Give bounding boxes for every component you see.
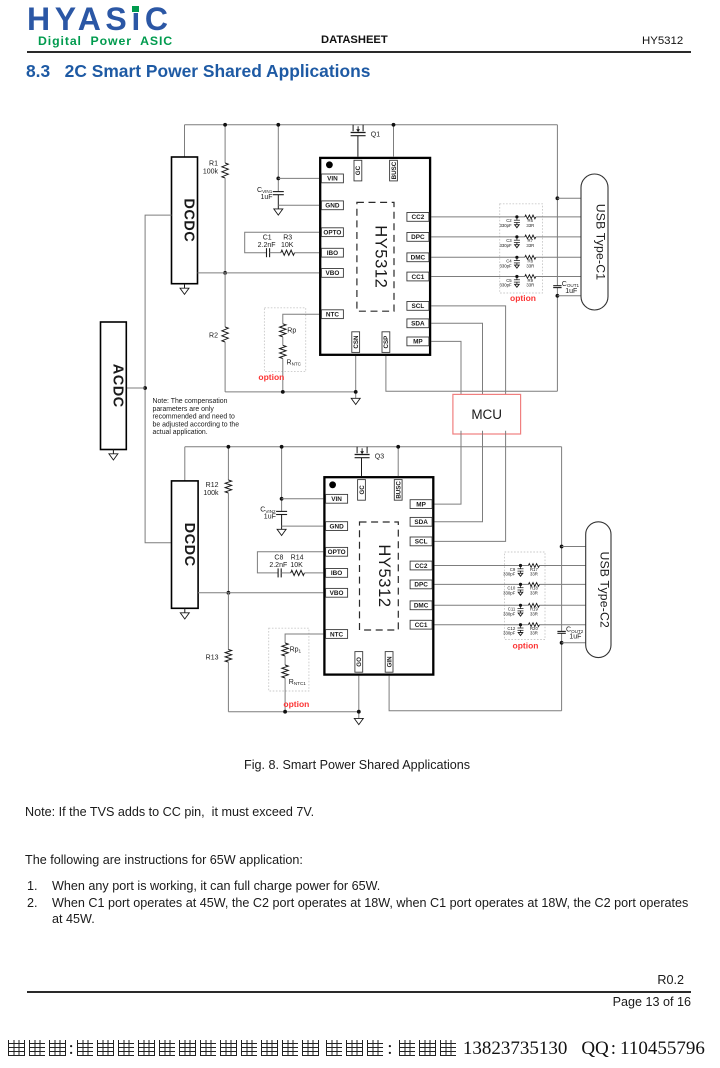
U1 pin IBO <box>321 248 343 257</box>
capacitor C1 2.2nF <box>266 248 268 257</box>
capacitor C5 330pF <box>515 275 518 278</box>
wire: NTC2 row <box>285 634 323 643</box>
svg-text:330pF: 330pF <box>503 590 516 595</box>
svg-text:2.2nF: 2.2nF <box>269 562 287 569</box>
svg-text:330pF: 330pF <box>503 572 516 577</box>
svg-text:33R: 33R <box>526 243 534 248</box>
svg-text:ACDC: ACDC <box>109 364 125 408</box>
U1 pin SDA <box>407 319 429 328</box>
node: rail2/BUSC2 <box>396 445 400 449</box>
wire: rail to DCDC1 top <box>184 125 186 157</box>
node: VIN row/CVIN1 <box>276 177 280 181</box>
wire: ACDC to DCDC1/DCDC2 input <box>145 215 171 543</box>
node: GO ground junction <box>357 710 361 714</box>
node: VBO/R1/R2 junction <box>223 271 227 275</box>
logo subtitle <box>38 34 173 48</box>
U2 pin VIN <box>326 494 348 503</box>
svg-text:CSN: CSN <box>353 335 360 349</box>
resistor R3 10K <box>281 250 295 255</box>
wire: VBUS1 bus down right side <box>556 125 558 286</box>
U2 pin BUSC <box>394 480 402 501</box>
svg-text:OPTO: OPTO <box>323 230 341 237</box>
capacitor CVIN1 1uF <box>277 125 279 192</box>
svg-text:GC: GC <box>359 485 366 495</box>
node: rail/BUSC1 <box>392 123 396 127</box>
svg-text:MP: MP <box>416 501 426 508</box>
svg-text:33R: 33R <box>530 631 538 636</box>
wire: OPTO-IBO compensation loop <box>245 232 319 253</box>
DCDC converter block (top) <box>172 157 198 284</box>
instructions heading <box>25 853 303 867</box>
svg-text:R14: R14 <box>291 555 304 562</box>
node: RNTC1/ground rail <box>283 710 287 714</box>
wire: row C3/R7 (pin to USB-C1) <box>431 236 525 238</box>
svg-text:MCU: MCU <box>471 407 502 422</box>
section title <box>26 61 370 82</box>
wire: GND pin row <box>278 204 319 206</box>
wire: VBUS1 row to USB-C1 <box>557 197 581 199</box>
ground at CSN <box>351 398 360 404</box>
U1 pin OPTO <box>321 228 343 237</box>
wire: row C11/R19 (pin to USB-C2) <box>434 604 528 606</box>
resistor R8 33R <box>525 255 536 259</box>
U1 pin CSN <box>352 332 360 353</box>
U2 pin CC1 <box>410 620 432 629</box>
svg-text:actual application.: actual application. <box>153 429 208 436</box>
U2 pin MP <box>410 500 432 509</box>
svg-text:Q1: Q1 <box>371 131 380 138</box>
ACDC converter block <box>101 322 127 450</box>
option box: Rp/RNTC (top) <box>264 308 305 372</box>
svg-text:CC1: CC1 <box>415 622 428 629</box>
svg-text:1uF: 1uF <box>569 634 581 641</box>
capacitor COUT2 1uF <box>557 630 565 632</box>
svg-text:NTC: NTC <box>330 631 344 638</box>
svg-text:2.2nF: 2.2nF <box>258 242 276 249</box>
wire: VBUS2 bus down right side <box>561 447 563 632</box>
svg-text:SDA: SDA <box>414 519 428 526</box>
wire: VIN2 pin row <box>282 498 324 500</box>
wire: VIN pin row <box>278 177 319 179</box>
svg-text:be adjusted according to the: be adjusted according to the <box>153 421 240 428</box>
svg-text:100k: 100k <box>203 169 219 176</box>
svg-text:33R: 33R <box>526 223 534 228</box>
circuit schematic <box>0 100 720 760</box>
wire: row C5/R9 (pin to USB-C1) <box>431 276 525 278</box>
wire: low row to USB-C2 <box>562 642 586 644</box>
resistor R18 33R <box>528 583 539 587</box>
U1 pin CC1 <box>407 272 429 281</box>
wire: VBUS2 top rail <box>185 446 562 448</box>
svg-text:SDA: SDA <box>411 321 425 328</box>
svg-text:33R: 33R <box>530 572 538 577</box>
svg-text:330pF: 330pF <box>500 223 513 228</box>
node: rail/CVIN1 <box>276 123 280 127</box>
U2 pin GC <box>358 480 366 501</box>
USB Type-C1 connector <box>581 174 608 310</box>
resistor RNTC1 <box>282 665 288 678</box>
capacitor C9 330pF <box>519 564 522 567</box>
U2 pin GIN <box>385 652 393 673</box>
resistor Rp1 <box>282 643 288 656</box>
node: COUT2 low side <box>560 641 564 645</box>
svg-text:DPC: DPC <box>414 582 428 589</box>
U2 pin DPC <box>410 580 432 589</box>
wire: VBUS1 top rail <box>185 124 558 126</box>
logo HYASIC <box>27 1 173 38</box>
U2 pin IBO <box>326 569 348 578</box>
svg-text:VBO: VBO <box>325 270 339 277</box>
ground below DCDC2 <box>184 608 186 613</box>
node: rail/R1 <box>223 123 227 127</box>
capacitor C4 330pF <box>515 256 518 259</box>
node: COUT1 low side <box>556 294 560 298</box>
op-amp/controller IC U1 HY5312 <box>320 158 430 355</box>
svg-text:VIN: VIN <box>331 496 342 503</box>
wire: CSP sense line to VBUS1 <box>386 356 558 391</box>
wire: row C2/R6 (pin to USB-C1) <box>431 216 525 218</box>
svg-text:option: option <box>283 699 309 709</box>
svg-text:33R: 33R <box>526 263 534 268</box>
svg-text:NTC: NTC <box>326 312 340 319</box>
svg-text:recommended and need to: recommended and need to <box>153 414 236 421</box>
capacitor C3 330pF <box>515 235 518 238</box>
header center: DATASHEET <box>321 34 388 46</box>
svg-text:R3: R3 <box>283 235 292 242</box>
resistor R13 <box>227 593 229 650</box>
note TVS <box>25 805 314 819</box>
svg-text:IBO: IBO <box>331 570 342 577</box>
U1 pin GC <box>354 160 362 181</box>
node: VIN2 row/CVIN2 <box>280 497 284 501</box>
op-amp/controller IC U2 HY5312 <box>324 477 433 674</box>
svg-text:IBO: IBO <box>327 250 338 257</box>
list item 2 <box>27 896 38 910</box>
svg-text:VBO: VBO <box>330 590 344 597</box>
U1 pin CSP <box>382 332 390 353</box>
figure caption <box>244 758 470 772</box>
option box: CC filter network (bottom) <box>505 552 546 640</box>
svg-text:CSP: CSP <box>383 336 390 349</box>
svg-text:GIN: GIN <box>386 656 393 668</box>
svg-text:R12: R12 <box>206 482 219 489</box>
node: VBO2/R12/R13 junction <box>227 591 231 595</box>
svg-text:DCDC: DCDC <box>181 523 197 567</box>
resistor RNTC <box>280 345 286 358</box>
svg-text:HY5312: HY5312 <box>375 544 393 607</box>
header rule <box>27 51 691 53</box>
node: CSN ground junction <box>354 390 358 394</box>
svg-text:DCDC: DCDC <box>181 198 197 242</box>
U2 pin CC2 <box>410 561 432 570</box>
node: rail2/R12 <box>227 445 231 449</box>
wire: VBO row (DCDC1 feedback) <box>198 272 320 274</box>
option box: Rp1/RNTC1 (bottom) <box>269 628 309 691</box>
svg-text:33R: 33R <box>530 611 538 616</box>
transistor Q1 (pass MOSFET) <box>353 125 363 132</box>
U2 pin VBO <box>326 588 348 597</box>
svg-text:GO: GO <box>356 657 363 667</box>
wire: VBUS2 row to USB-C2 <box>562 546 586 548</box>
U1 pin DPC <box>407 233 429 242</box>
ground below ACDC <box>112 450 114 454</box>
svg-text:10K: 10K <box>281 242 294 249</box>
svg-text:option: option <box>513 641 539 651</box>
node: VBUS1 to connector <box>556 196 560 200</box>
wire: GIN sense line to VBUS2 <box>389 676 561 711</box>
wire: low row to USB-C1 <box>557 295 581 297</box>
svg-text:RNTC: RNTC <box>287 359 302 366</box>
wire: OPTO2-IBO2 compensation loop <box>257 552 323 573</box>
wire: ground rail (top circuit) <box>225 391 356 393</box>
svg-text:R1: R1 <box>209 161 218 168</box>
U1 pin SCL <box>407 302 429 311</box>
U1 pin MP <box>407 337 429 346</box>
svg-text:CC2: CC2 <box>415 563 428 570</box>
svg-text:OPTO: OPTO <box>328 549 346 556</box>
svg-text:DMC: DMC <box>411 255 426 262</box>
U1 pin GND <box>321 201 343 210</box>
U1 pin VIN <box>321 174 343 183</box>
svg-text:VIN: VIN <box>327 176 338 183</box>
node: ACDC output junction <box>143 386 147 390</box>
header right: HY5312 <box>642 35 683 47</box>
footer distributor line (CJK rendered as stroke blocks) <box>6 1038 705 1060</box>
svg-text:GND: GND <box>325 203 340 210</box>
wire: row C12/R20 (pin to USB-C2) <box>434 624 528 626</box>
svg-text:SCL: SCL <box>415 539 428 546</box>
wire: SDA1 to MCU <box>431 323 482 397</box>
U2 pin GO <box>355 652 363 673</box>
U1 pin CC2 <box>407 213 429 222</box>
svg-text:GC: GC <box>355 165 362 175</box>
U2 pin DMC <box>410 601 432 610</box>
svg-text:33R: 33R <box>530 590 538 595</box>
list item 1 <box>27 879 38 893</box>
svg-text:330pF: 330pF <box>500 243 513 248</box>
capacitor C2 330pF <box>515 215 518 218</box>
svg-text:10K: 10K <box>290 562 303 569</box>
U2 pin OPTO <box>326 547 348 556</box>
wire: row C10/R18 (pin to USB-C2) <box>434 583 528 585</box>
resistor R12 100k <box>227 447 229 480</box>
svg-text:Rp: Rp <box>287 328 296 335</box>
svg-text:330pF: 330pF <box>500 283 513 288</box>
resistor R20 33R <box>528 623 539 627</box>
transistor Q3 (pass MOSFET) <box>357 447 367 454</box>
resistor R14 10K <box>291 570 305 575</box>
wire: NTC row <box>283 314 319 324</box>
wire: CSN to ground <box>355 356 357 398</box>
U2 pin-1 marker <box>329 481 336 488</box>
svg-text:Q3: Q3 <box>375 453 384 460</box>
U1 pin-1 marker <box>326 161 333 168</box>
resistor R2 (lower divider) <box>224 273 226 327</box>
USB Type-C2 connector <box>586 522 611 658</box>
capacitor CVIN2 1uF <box>281 447 283 512</box>
svg-text:BUSC: BUSC <box>391 161 398 179</box>
resistor R19 33R <box>528 603 539 607</box>
wire: ACDC output <box>126 387 145 389</box>
node: RNTC/ground rail <box>281 390 285 394</box>
capacitor C11 330pF <box>519 604 522 607</box>
svg-text:C8: C8 <box>274 555 283 562</box>
wire: rail to DCDC2 top <box>184 447 186 481</box>
svg-text:parameters are only: parameters are only <box>153 406 215 413</box>
U2 pin GND <box>326 522 348 531</box>
wire: MP1 to MCU <box>431 341 461 397</box>
U1 pin NTC <box>321 310 343 319</box>
capacitor COUT1 1uF <box>553 285 561 287</box>
resistor Rp <box>280 324 286 337</box>
U2 pin NTC <box>326 630 348 639</box>
svg-text:100k: 100k <box>203 490 219 497</box>
svg-text:R13: R13 <box>206 655 219 662</box>
capacitor C10 330pF <box>519 583 522 586</box>
svg-text:BUSC: BUSC <box>396 481 403 499</box>
wire: ground rail (bottom circuit) <box>228 711 358 713</box>
MCU block <box>453 394 521 434</box>
svg-text:DPC: DPC <box>411 234 425 241</box>
svg-text:GND: GND <box>329 523 344 530</box>
footer page number <box>613 995 691 1009</box>
svg-text:CC2: CC2 <box>412 214 425 221</box>
resistor R6 33R <box>525 215 536 219</box>
wire: VBO2 row (DCDC2 feedback) <box>198 592 323 594</box>
wire: BUSC1 drop <box>393 125 395 157</box>
U1 pin DMC <box>407 253 429 262</box>
node: VBUS2 to connector <box>560 545 564 549</box>
node: rail2/CVIN2 <box>280 445 284 449</box>
footer rule <box>27 991 691 993</box>
ground below DCDC1 <box>184 284 186 289</box>
svg-text:1uF: 1uF <box>264 514 276 521</box>
DCDC converter block (bottom) <box>172 481 199 608</box>
wire: row C9/R17 (pin to USB-C2) <box>434 565 528 567</box>
wire: row C4/R8 (pin to USB-C1) <box>431 256 525 258</box>
svg-text:USB Type-C2: USB Type-C2 <box>597 551 611 628</box>
wire: SCL1 to MCU <box>431 306 505 398</box>
svg-text:DMC: DMC <box>414 603 429 610</box>
footer revision <box>657 973 684 987</box>
svg-text:CC1: CC1 <box>412 274 425 281</box>
svg-text:Rp1: Rp1 <box>290 647 302 654</box>
capacitor C8 2.2nF <box>277 568 279 577</box>
U1 pin VBO <box>321 269 343 278</box>
wire: BUSC2 drop <box>397 447 399 476</box>
svg-text:1uF: 1uF <box>261 194 273 201</box>
U1 pin BUSC <box>390 160 398 181</box>
svg-text:USB Type-C1: USB Type-C1 <box>594 204 608 281</box>
wire: GO to ground <box>358 676 360 719</box>
svg-text:1uF: 1uF <box>565 288 577 295</box>
svg-text:MP: MP <box>413 339 423 346</box>
svg-text:C1: C1 <box>263 235 272 242</box>
resistor R7 33R <box>525 235 536 239</box>
resistor R1 100k (upper divider) <box>224 125 226 163</box>
svg-text:RNTC1: RNTC1 <box>289 679 307 686</box>
resistor R9 33R <box>525 275 536 279</box>
svg-text:33R: 33R <box>526 283 534 288</box>
capacitor C12 330pF <box>519 623 522 626</box>
svg-text:Note: The compensation: Note: The compensation <box>153 398 228 405</box>
MCU bottom pin stubs to IC2 <box>434 431 461 504</box>
svg-text:330pF: 330pF <box>503 611 516 616</box>
svg-text:R2: R2 <box>209 333 218 340</box>
resistor R17 33R <box>528 564 539 568</box>
svg-text:SCL: SCL <box>412 303 425 310</box>
U2 pin SDA <box>410 517 432 526</box>
option box: CC filter network (top) <box>500 204 543 293</box>
svg-text:330pF: 330pF <box>500 263 513 268</box>
ground at GO <box>354 718 363 724</box>
svg-text:HY5312: HY5312 <box>371 225 389 288</box>
svg-text:option: option <box>258 372 284 382</box>
svg-text:option: option <box>510 293 536 303</box>
wire: GND2 pin row <box>282 525 324 527</box>
U2 dashed outline <box>360 522 399 630</box>
U2 pin SCL <box>410 537 432 546</box>
U1 dashed outline <box>357 202 394 311</box>
svg-text:330pF: 330pF <box>503 631 516 636</box>
